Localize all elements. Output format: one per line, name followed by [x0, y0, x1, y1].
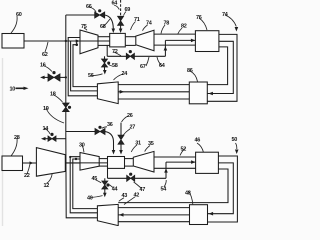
- svg-text:46: 46: [195, 138, 201, 144]
- svg-text:71: 71: [134, 17, 140, 23]
- svg-text:28: 28: [14, 135, 20, 141]
- svg-text:67: 67: [140, 64, 146, 70]
- svg-text:36: 36: [107, 122, 113, 128]
- svg-text:45: 45: [92, 176, 98, 182]
- svg-text:68: 68: [100, 24, 106, 30]
- svg-text:86: 86: [187, 68, 193, 74]
- svg-text:19: 19: [43, 106, 49, 112]
- svg-text:16: 16: [40, 63, 46, 69]
- svg-text:74: 74: [222, 12, 229, 18]
- svg-text:12: 12: [44, 183, 50, 189]
- svg-text:78: 78: [164, 21, 170, 27]
- svg-text:82: 82: [181, 24, 187, 30]
- svg-text:75: 75: [81, 24, 87, 30]
- svg-text:60: 60: [16, 12, 22, 18]
- svg-text:62: 62: [42, 52, 48, 58]
- svg-text:24: 24: [122, 71, 129, 77]
- svg-text:10: 10: [10, 87, 16, 93]
- svg-text:64: 64: [159, 63, 166, 69]
- svg-text:48: 48: [185, 191, 191, 197]
- svg-text:31: 31: [135, 140, 141, 146]
- svg-text:54: 54: [161, 187, 168, 193]
- svg-text:18: 18: [50, 92, 56, 98]
- svg-text:26: 26: [127, 113, 133, 119]
- svg-text:30: 30: [79, 143, 85, 149]
- svg-text:27: 27: [130, 125, 136, 131]
- svg-text:52: 52: [181, 147, 187, 153]
- svg-text:64: 64: [112, 1, 119, 7]
- svg-text:66: 66: [86, 4, 92, 10]
- svg-text:43: 43: [122, 193, 128, 199]
- svg-text:40: 40: [87, 196, 93, 202]
- svg-text:22: 22: [24, 173, 30, 179]
- svg-text:72: 72: [112, 49, 118, 55]
- svg-text:42: 42: [134, 193, 140, 199]
- svg-text:47: 47: [140, 187, 146, 193]
- svg-text:56: 56: [88, 73, 94, 79]
- svg-text:76: 76: [196, 15, 202, 21]
- svg-text:69: 69: [125, 7, 131, 13]
- svg-text:44: 44: [112, 187, 119, 193]
- svg-text:74: 74: [146, 21, 153, 27]
- svg-text:50: 50: [232, 137, 238, 143]
- svg-text:58: 58: [112, 63, 118, 69]
- svg-text:35: 35: [148, 141, 154, 147]
